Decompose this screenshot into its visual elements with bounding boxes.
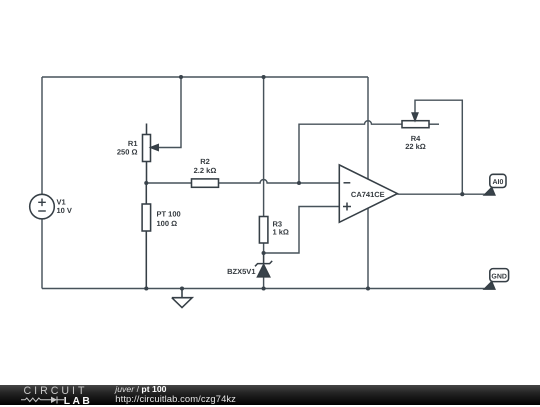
- R4 wiper arrow: [412, 113, 418, 120]
- svg-text:BZX5V1: BZX5V1: [227, 267, 255, 276]
- wire R4 right stub open: [429, 123, 439, 125]
- svg-text:GND: GND: [491, 273, 507, 280]
- wire R1 wiper to top rail: [158, 77, 182, 148]
- CircuitLab logo resistor-diode glyph: [20, 395, 66, 405]
- wire op-amp output to AI0 flag: [397, 193, 484, 195]
- svg-text:100 Ω: 100 Ω: [157, 219, 178, 228]
- footer title juver / pt 100: [115, 384, 166, 394]
- flag AI0 tail: [484, 188, 494, 195]
- zener diode BZX5V1 bar: [255, 261, 272, 266]
- op-amp minus input symbol: [344, 182, 351, 184]
- footer bar: [0, 385, 540, 406]
- wire R3 bottom to zener node: [263, 243, 265, 253]
- wire node A horizontal (R1/PT100 to R2): [146, 182, 191, 184]
- svg-text:250 Ω: 250 Ω: [117, 148, 138, 157]
- junction node PT100 / ground rail: [144, 286, 148, 290]
- junction node R4 wiper / output: [460, 192, 464, 196]
- svg-text:22 kΩ: 22 kΩ: [405, 142, 426, 151]
- junction node R1 / R2 / PT100: [144, 181, 148, 185]
- wire feedback from minus node up and right to R4 with hop over supply line: [299, 121, 402, 183]
- svg-text:1 kΩ: 1 kΩ: [273, 228, 289, 237]
- svg-text:CA741CE: CA741CE: [351, 190, 385, 199]
- resistor PT 100 body: [142, 204, 151, 231]
- CircuitLab logo text LAB: [64, 396, 92, 407]
- junction node feedback / minus input: [297, 181, 301, 185]
- wire op-amp plus input to zener node: [264, 207, 340, 254]
- wire V1 top lead: [41, 77, 43, 194]
- svg-text:AI0: AI0: [492, 179, 503, 186]
- junction node zener / rail: [262, 286, 266, 290]
- junction node top rail / R3 column: [262, 75, 266, 79]
- wire bottom ground rail: [42, 288, 485, 290]
- R1 wiper arrow: [151, 145, 158, 151]
- wire R4 wiper up right and down to output: [415, 100, 462, 194]
- wire zener to ground rail: [263, 277, 265, 289]
- resistor R3 body: [259, 217, 268, 244]
- wire op-amp V- supply to ground rail: [367, 208, 369, 288]
- junction node R3 / zener / plus input: [262, 251, 266, 255]
- footer url: [115, 393, 236, 404]
- junction node ground symbol / rail: [180, 286, 184, 290]
- wire PT100 top stub: [145, 183, 147, 204]
- wire R1 bottom stub: [146, 162, 148, 184]
- junction node op-amp V- / rail: [366, 286, 370, 290]
- wire R2 to op-amp minus input with hop over R3 column: [219, 180, 340, 183]
- voltage source V1: [30, 194, 55, 219]
- wire op-amp V+ supply from top rail: [367, 77, 369, 179]
- svg-text:R2: R2: [200, 157, 210, 166]
- zener diode BZX5V1 triangle: [258, 265, 270, 277]
- junction node top rail / R1 wiper: [179, 75, 183, 79]
- flag GND tail: [484, 282, 494, 289]
- svg-text:10 V: 10 V: [57, 206, 72, 215]
- flag AI0 box: [490, 174, 506, 187]
- resistor R2 body: [192, 179, 219, 187]
- svg-text:2.2 kΩ: 2.2 kΩ: [194, 166, 217, 175]
- svg-text:PT 100: PT 100: [157, 210, 181, 219]
- ground symbol: [172, 289, 192, 308]
- CircuitLab logo text CIRCUIT: [24, 385, 88, 397]
- wire top rail down to R3: [263, 77, 265, 217]
- wire V1 bottom lead: [41, 219, 43, 289]
- op-amp U1 CA741CE triangle: [339, 165, 397, 222]
- resistor R1 potentiometer body: [143, 135, 151, 162]
- op-amp plus input symbol: [343, 203, 351, 211]
- wire R1 top stub: [146, 124, 148, 135]
- wire top rail: [42, 76, 368, 78]
- flag GND box: [490, 269, 509, 282]
- wire zener top stub: [263, 253, 265, 264]
- wire PT100 bottom stub: [145, 231, 147, 289]
- resistor R4 potentiometer body: [402, 121, 429, 128]
